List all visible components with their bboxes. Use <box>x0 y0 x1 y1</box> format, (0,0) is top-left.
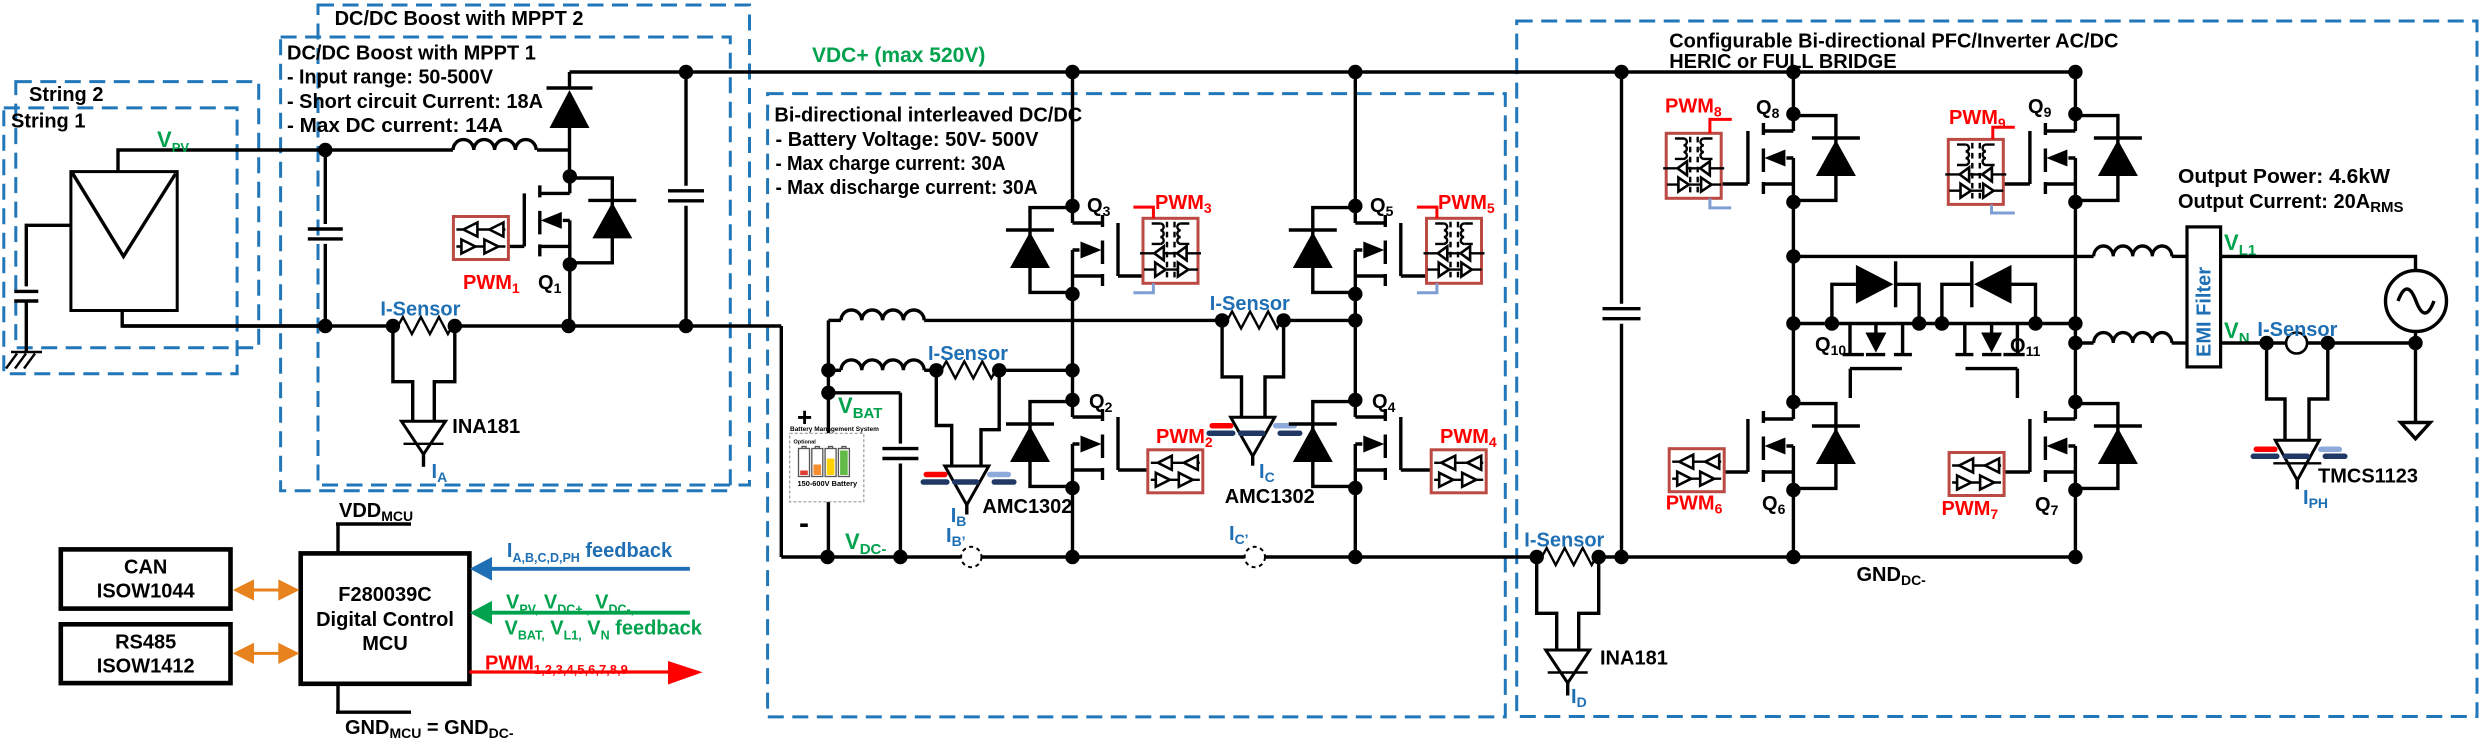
svg-text:PWM4: PWM4 <box>1440 426 1497 450</box>
label I feedback <box>507 540 673 565</box>
node VBAT <box>821 386 900 400</box>
svg-text:PWM1: PWM1 <box>463 272 520 296</box>
label AMC1302 C <box>1225 486 1315 508</box>
wire MCU to GND <box>336 684 411 712</box>
wire panel left to string capacitor <box>26 225 71 286</box>
svg-text:- Max charge current: 30A: - Max charge current: 30A <box>776 153 1006 175</box>
inductor output N <box>2094 333 2187 343</box>
EMI filter block <box>2187 227 2221 367</box>
wire VPV rail to boost junction <box>325 148 569 151</box>
svg-text:Bi-directional interleaved DC/: Bi-directional interleaved DC/DC <box>774 105 1082 127</box>
svg-text:ISOW1044: ISOW1044 <box>97 581 196 603</box>
label IC <box>1259 461 1275 485</box>
ground string <box>6 352 42 369</box>
svg-text:- Max discharge current: 30A: - Max discharge current: 30A <box>776 177 1038 199</box>
label INA181 D <box>1600 648 1668 670</box>
transistor Q10 <box>1843 324 1912 399</box>
capacitor DC link <box>1603 65 1641 564</box>
label INA181 A <box>452 416 520 438</box>
label Q10 <box>1815 334 1846 358</box>
wire PWM3 blue stub <box>1133 283 1153 292</box>
svg-text:Optional: Optional <box>794 440 817 446</box>
label VN <box>2224 318 2250 347</box>
label Q2 <box>1089 391 1113 415</box>
label PWM8 <box>1665 96 1722 120</box>
box DC/DC Boost with MPPT 1 <box>281 37 731 491</box>
box Bi-directional interleaved DC/DC <box>768 94 1506 717</box>
inductor phase B lower <box>821 360 936 378</box>
svg-text:I-Sensor: I-Sensor <box>1524 530 1604 552</box>
label PWM outputs <box>485 653 628 678</box>
wire legA vertical <box>1786 65 1800 564</box>
svg-text:VDC+ (max 520V): VDC+ (max 520V) <box>812 44 985 67</box>
wire battery positive riser <box>827 320 830 392</box>
label IC' <box>1229 523 1249 547</box>
wire VDD to MCU <box>336 524 411 553</box>
wire AC to ground <box>2414 343 2417 423</box>
svg-text:PWM6: PWM6 <box>1666 493 1723 517</box>
svg-text:- Short circuit Current: 18A: - Short circuit Current: 18A <box>287 91 543 113</box>
wire sense leads AMC1302 B <box>936 370 999 466</box>
label PWM6 <box>1666 493 1723 517</box>
label DC/DC Boost with MPPT 2 <box>335 8 584 30</box>
svg-text:INA181: INA181 <box>452 416 520 438</box>
label GND MCU <box>345 717 514 741</box>
svg-text:PWM3: PWM3 <box>1155 192 1212 216</box>
svg-text:PWM8: PWM8 <box>1665 96 1722 120</box>
label Q9 <box>2028 96 2052 120</box>
arrow PWM outputs <box>469 661 702 685</box>
label IPH <box>2303 487 2328 511</box>
svg-text:GNDMCU = GNDDC-: GNDMCU = GNDDC- <box>345 717 514 741</box>
label Q3 <box>1087 195 1111 219</box>
svg-text:PWM2: PWM2 <box>1156 426 1213 450</box>
capacitor string input <box>14 291 38 352</box>
arrow RS485-MCU <box>233 643 300 664</box>
block CAN ISOW1044 <box>61 549 231 608</box>
label String 2 <box>29 84 103 106</box>
wire top rail VDC+ <box>570 70 2076 73</box>
inductor boost L1 <box>453 140 536 150</box>
svg-text:EMI Filter: EMI Filter <box>2194 267 2216 357</box>
svg-text:I-Sensor: I-Sensor <box>1210 293 1290 315</box>
svg-text:PWM7: PWM7 <box>1942 498 1999 522</box>
capacitor MPPT output <box>668 65 704 333</box>
wire PV negative to VDC- rail <box>780 326 783 557</box>
label PWM4 <box>1440 426 1497 450</box>
svg-text:HERIC or FULL BRIDGE: HERIC or FULL BRIDGE <box>1669 51 1896 73</box>
svg-text:ISOW1412: ISOW1412 <box>97 656 195 678</box>
svg-text:INA181: INA181 <box>1600 648 1668 670</box>
inductor output L1 <box>2094 246 2187 256</box>
label GND DC- <box>1857 564 1927 588</box>
node I-Sensor PH circle <box>2286 333 2307 354</box>
gate driver PWM1 <box>453 217 508 260</box>
inductor phase B upper <box>828 310 1222 320</box>
wire PWM8 red stub <box>1710 119 1732 133</box>
wire PWM9 blue stub <box>1992 205 2015 213</box>
block RS485 ISOW1412 <box>61 624 231 683</box>
arrow feedback voltages <box>470 601 690 625</box>
svg-text:AMC1302: AMC1302 <box>982 496 1072 518</box>
wire legB vertical <box>2068 65 2082 564</box>
wire sense leads AMC1302 C <box>1222 320 1284 417</box>
label Configurable Bi-directional PFC/Inverter AC/DC <box>1669 31 2118 73</box>
svg-text:- Battery Voltage: 50V- 500V: - Battery Voltage: 50V- 500V <box>776 129 1040 151</box>
resistor I-Sensor D <box>1530 548 1606 565</box>
svg-text:CAN: CAN <box>124 557 167 579</box>
svg-text:F280039C: F280039C <box>338 584 431 606</box>
wire VDC- bottom rail <box>781 555 2075 558</box>
wire sense leads TMCS1123 <box>2267 343 2328 440</box>
svg-text:- Input range: 50-500V: - Input range: 50-500V <box>287 67 494 89</box>
label Q11 <box>2010 335 2041 359</box>
diode boost D <box>547 72 593 176</box>
wire sense leads INA181 D <box>1537 557 1599 650</box>
wire battery negative to rail <box>820 502 834 564</box>
svg-text:PWM9: PWM9 <box>1949 107 2006 131</box>
gate driver PWM7 <box>1949 453 2004 496</box>
svg-text:String 2: String 2 <box>29 84 103 106</box>
svg-text:AMC1302: AMC1302 <box>1225 486 1315 508</box>
label PWM9 <box>1949 107 2006 131</box>
mosfet Q9 <box>1998 107 2142 209</box>
label VDC- <box>845 529 886 558</box>
battery management system icon <box>790 426 879 502</box>
label Q1 <box>538 272 562 296</box>
op-amp AMC1302 C <box>1209 417 1300 466</box>
svg-text:PWM5: PWM5 <box>1438 192 1495 216</box>
AC source <box>2386 271 2447 344</box>
mosfet Q7 <box>1998 395 2142 497</box>
wire Q1 source to rail <box>561 264 575 333</box>
gate driver PWM4 <box>1431 450 1486 493</box>
svg-text:I-Sensor: I-Sensor <box>380 299 460 321</box>
resistor I-Sensor A <box>386 317 462 334</box>
label Q6 <box>1762 493 1786 517</box>
PV panel <box>71 172 177 311</box>
label VBAT <box>838 393 882 422</box>
label Q8 <box>1756 97 1780 121</box>
svg-text:Digital Control: Digital Control <box>316 609 454 631</box>
label V feedback <box>505 592 703 643</box>
svg-text:DC/DC Boost with MPPT 1: DC/DC Boost with MPPT 1 <box>287 43 536 65</box>
op-amp INA181 D <box>1546 650 1590 696</box>
wire PWM9 red stub <box>1993 127 2015 139</box>
svg-text:TMCS1123: TMCS1123 <box>2318 466 2418 488</box>
label I-Sensor B <box>928 343 1008 365</box>
wire PWM3 red stub <box>1133 207 1153 218</box>
wire leg2 vertical <box>1348 65 1362 564</box>
wire HERIC node row <box>1793 322 2075 325</box>
svg-text:-: - <box>799 507 809 540</box>
svg-text:- Max DC current: 14A: - Max DC current: 14A <box>287 115 503 137</box>
capacitor battery <box>882 393 918 564</box>
wire PWM5 red stub <box>1417 207 1437 218</box>
capacitor MPPT input <box>308 143 343 333</box>
wire phase row L1 <box>1793 255 2093 258</box>
label PWM3 <box>1155 192 1212 216</box>
svg-text:I-Sensor: I-Sensor <box>928 343 1008 365</box>
label TMCS1123 <box>2318 466 2418 488</box>
label Q5 <box>1370 195 1394 219</box>
label VDD MCU <box>339 500 413 524</box>
wire leg1 vertical <box>1065 65 1079 564</box>
resistor I-Sensor C <box>1215 311 1355 328</box>
gate driver PWM5 <box>1424 218 1485 283</box>
node IC' dashed circle <box>1245 547 1265 567</box>
label PWM5 <box>1438 192 1495 216</box>
label battery plus <box>797 402 812 432</box>
mosfet Q6 <box>1716 395 1860 497</box>
op-amp AMC1302 B <box>923 466 1014 515</box>
resistor I-Sensor B <box>929 361 1072 378</box>
mosfet Q5 <box>1289 199 1433 301</box>
label VL1 <box>2224 230 2256 259</box>
diode HERIC D1 <box>1825 261 1927 330</box>
label AMC1302 B <box>982 496 1072 518</box>
wire panel negative to rail <box>122 311 327 327</box>
svg-text:String 1: String 1 <box>11 111 85 133</box>
wire PWM5 blue stub <box>1417 283 1437 292</box>
arrow feedback currents <box>470 557 690 581</box>
wire L1 to AC source <box>2221 256 2416 270</box>
label IB' <box>946 525 966 549</box>
box Configurable Bi-directional PFC/Inverter AC/DC <box>1517 21 2477 717</box>
gate driver PWM3 <box>1140 218 1201 283</box>
mosfet Q1 <box>493 169 637 271</box>
svg-text:MCU: MCU <box>362 633 408 655</box>
label PWM2 <box>1156 426 1213 450</box>
op-amp INA181 A <box>402 421 446 467</box>
svg-text:150-600V Battery: 150-600V Battery <box>798 479 858 488</box>
wire battery positive into BMS <box>827 393 830 434</box>
label I-Sensor PH <box>2257 319 2337 341</box>
svg-text:DC/DC Boost with MPPT 2: DC/DC Boost with MPPT 2 <box>335 8 584 30</box>
label I-Sensor A <box>380 299 460 321</box>
label VDC+ <box>812 44 985 67</box>
svg-text:I-Sensor: I-Sensor <box>2257 319 2337 341</box>
wire VPV from panel to boost <box>118 150 325 172</box>
wire MPPT bottom rail <box>122 324 781 327</box>
wire sense leads INA181 A <box>393 326 455 421</box>
label Output Power <box>2178 166 2404 216</box>
label IB <box>951 505 967 529</box>
diode HERIC D2 <box>1935 261 2043 330</box>
box DC/DC Boost with MPPT 2 <box>318 5 750 485</box>
label String 1 <box>11 111 85 133</box>
mosfet Q8 <box>1716 107 1860 209</box>
label PWM1 <box>463 272 520 296</box>
op-amp TMCS1123 <box>2253 440 2345 489</box>
gate driver PWM9 <box>1945 139 2006 204</box>
mosfet Q2 <box>1006 393 1150 495</box>
ground AC <box>2401 423 2431 439</box>
gate driver PWM2 <box>1148 450 1203 493</box>
label IA <box>432 461 448 485</box>
wire N rail <box>2221 336 2423 350</box>
wire phase row N <box>2075 341 2093 344</box>
arrow CAN-MCU <box>233 579 300 600</box>
label Bi-directional interleaved DC/DC + specs <box>774 105 1082 200</box>
label Q7 <box>2035 494 2059 518</box>
node IB' dashed circle <box>961 547 981 567</box>
label I-Sensor C <box>1210 293 1290 315</box>
label VPV <box>157 127 189 155</box>
transistor Q11 <box>1955 324 2024 399</box>
label Q4 <box>1372 391 1396 415</box>
mosfet Q4 <box>1289 393 1433 495</box>
block MCU F280039C <box>301 553 470 683</box>
mosfet Q3 <box>1006 199 1150 301</box>
label ID <box>1571 686 1587 710</box>
wire PWM8 blue stub <box>1710 199 1731 208</box>
gate driver PWM8 <box>1663 133 1724 198</box>
svg-text:Configurable Bi-directional PF: Configurable Bi-directional PFC/Inverter… <box>1669 31 2118 53</box>
label I-Sensor D <box>1524 530 1604 552</box>
box String 1 <box>4 108 237 374</box>
svg-text:Output Power: 4.6kW: Output Power: 4.6kW <box>2178 166 2390 188</box>
svg-text:Output Current: 20ARMS: Output Current: 20ARMS <box>2178 191 2404 216</box>
label DC/DC Boost with MPPT 1 + specs <box>287 43 543 138</box>
svg-text:Battery Management System: Battery Management System <box>790 426 879 433</box>
svg-text:RS485: RS485 <box>115 632 176 654</box>
box String 2 <box>16 82 259 348</box>
label battery minus <box>799 507 809 540</box>
gate driver PWM6 <box>1669 449 1724 492</box>
label PWM7 <box>1942 498 1999 522</box>
